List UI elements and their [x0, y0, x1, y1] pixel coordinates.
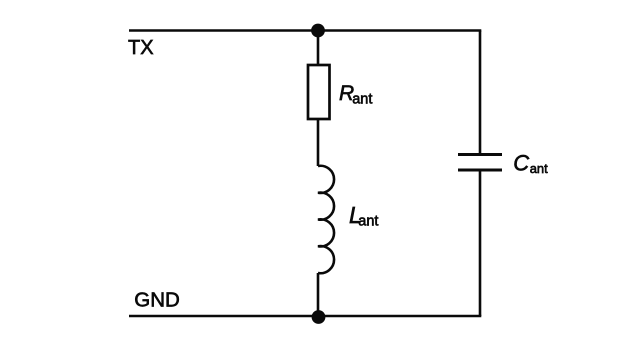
capacitor Cant top plate: [458, 153, 502, 156]
wire: bottom rail GND: [129, 315, 481, 318]
svg-text:GND: GND: [134, 288, 180, 311]
svg-text:ant: ant: [352, 91, 372, 107]
junction dot top node: [311, 24, 325, 38]
capacitor Cant bottom plate: [458, 169, 502, 172]
svg-text:ant: ant: [358, 214, 378, 230]
resistor Rant body: [308, 65, 330, 119]
wire: middle branch, top dot to resistor top: [317, 31, 320, 66]
svg-text:C: C: [513, 151, 529, 176]
wire: inductor bottom to bottom dot: [317, 273, 320, 316]
wire: top rail TX: [129, 29, 481, 32]
svg-text:ant: ant: [530, 161, 548, 176]
svg-text:TX: TX: [128, 37, 154, 59]
wire: resistor bottom to inductor top: [317, 119, 320, 166]
junction dot bottom node: [312, 310, 326, 324]
inductor Lant coil: [318, 166, 334, 273]
wire: right branch upper (to capacitor): [479, 31, 482, 156]
wire: right branch lower (from capacitor): [479, 170, 482, 316]
